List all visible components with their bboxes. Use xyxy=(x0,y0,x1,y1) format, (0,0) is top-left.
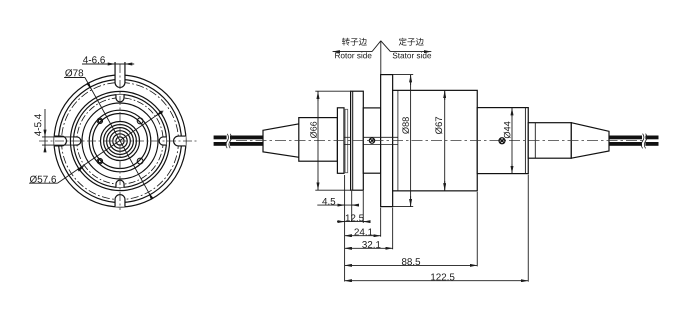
north inner slot 5.4 xyxy=(116,95,124,102)
O88 flange xyxy=(381,75,393,207)
dim 122.5 xyxy=(345,280,529,282)
step circle r30.8 xyxy=(89,110,151,172)
dim 88.5 xyxy=(345,264,478,266)
bolt circle O78 dash-dot xyxy=(62,83,179,200)
rotor/stator side annotation xyxy=(372,41,390,75)
dimension O88 xyxy=(393,75,414,207)
rotor end disc xyxy=(337,108,344,174)
O44 end chamfer line xyxy=(524,108,526,174)
rotor cable lower xyxy=(214,142,263,146)
rotor housing cylinder xyxy=(299,118,338,162)
bore ring r7.2 xyxy=(113,134,127,148)
dimension O66 xyxy=(315,91,351,190)
ext body right xyxy=(476,192,478,267)
side view centerline xyxy=(236,140,643,142)
screw symbol right xyxy=(499,138,505,144)
dim 32.1 xyxy=(345,247,393,249)
boot seam xyxy=(534,123,536,159)
vertical centerline left view xyxy=(119,64,121,210)
dim line 4.5 xyxy=(317,204,358,206)
leader O78 xyxy=(85,78,152,199)
hole top-left (threaded) xyxy=(97,118,102,123)
ext disc left xyxy=(351,191,353,222)
stator boot cylinder xyxy=(528,123,571,159)
bore ring r16.4 xyxy=(104,125,137,158)
leader O57.6 xyxy=(57,111,163,183)
bore ring r10.3 xyxy=(110,131,131,152)
step circle r38 xyxy=(82,103,158,179)
horizontal centerline left view xyxy=(39,140,198,142)
hole bottom-left (threaded) xyxy=(97,158,102,163)
stator cable break xyxy=(642,134,645,147)
south outer slot 6.6 xyxy=(115,195,125,207)
spacer cylinder xyxy=(363,108,380,173)
ext disc right xyxy=(362,191,364,223)
east inner slot 5.4 xyxy=(159,137,166,145)
stator cone xyxy=(571,123,609,159)
bore ring r19.5 xyxy=(101,122,140,161)
hole bottom-right xyxy=(137,158,143,164)
circle r46.5 xyxy=(74,95,167,188)
rotor cable break xyxy=(227,135,230,148)
stator cable lower xyxy=(609,142,659,146)
ext O44 end xyxy=(527,175,529,282)
stator cable upper xyxy=(609,136,659,140)
bore lines xyxy=(344,136,350,138)
ext flange right xyxy=(392,208,394,250)
dimension O67 xyxy=(444,90,446,191)
O66 disc xyxy=(351,91,364,190)
O67 body xyxy=(393,90,478,191)
rotor boot cone xyxy=(263,124,299,158)
dim line 12.5 xyxy=(337,221,370,223)
dimension 4-6.6 top xyxy=(82,63,134,65)
west inner slot 5.4 xyxy=(74,137,81,145)
O44 stator cylinder xyxy=(477,108,528,174)
bore ring r13.4 xyxy=(107,128,134,155)
screw symbol left xyxy=(369,138,374,143)
outer step circle r61.5 xyxy=(59,80,182,203)
dimension 4-5.4 left xyxy=(42,109,74,150)
rotor cable upper xyxy=(214,136,263,140)
dimension O44 xyxy=(511,108,513,174)
hole top-right xyxy=(137,118,143,124)
body seam xyxy=(397,90,399,191)
bolt circle O57.6 dash-dot xyxy=(77,98,163,184)
circle r49.6 (rotor housing O66) xyxy=(70,91,169,190)
west outer slot 6.6 xyxy=(54,136,66,146)
outer circle O88 flange xyxy=(54,75,186,207)
bottom dimension stack xyxy=(317,175,528,282)
thin plate (gasket) xyxy=(345,109,348,172)
bore ring r4.1 xyxy=(116,137,124,145)
boss circle r27.5 xyxy=(93,114,148,169)
north outer slot 6.6 xyxy=(115,62,125,87)
ext flange left xyxy=(380,208,382,237)
east outer slot 6.6 xyxy=(174,136,186,146)
south inner slot 5.4 xyxy=(116,180,124,187)
dim 24.1 xyxy=(345,235,381,237)
datum extension xyxy=(344,175,346,282)
